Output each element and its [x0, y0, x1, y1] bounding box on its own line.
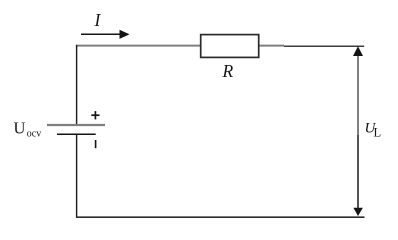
wire left vertical (top corner to battery +)	[76, 45, 78, 125]
wire top horizontal (left of junction)	[77, 45, 284, 47]
svg-text:U: U	[14, 119, 26, 138]
resistor R1 body	[201, 35, 259, 58]
svg-text:ocv: ocv	[27, 128, 41, 139]
battery U_ocv plate + (long top plate)	[47, 124, 105, 126]
voltage arrow U_L (double-headed, right branch)	[353, 46, 363, 216]
label U_L	[365, 120, 382, 139]
wire top horizontal (right segment to node)	[284, 45, 364, 47]
svg-text:L: L	[374, 126, 382, 140]
battery U_ocv plate - (short bottom plate)	[57, 133, 96, 135]
battery polarity plus sign	[91, 111, 99, 119]
wire left vertical (battery - to bottom corner)	[76, 134, 78, 218]
wire bottom horizontal	[76, 216, 365, 218]
svg-text:I: I	[94, 10, 102, 30]
current arrow I	[81, 30, 130, 39]
svg-text:R: R	[222, 61, 234, 81]
label U_ocv	[14, 119, 42, 140]
battery polarity minus tick	[95, 140, 97, 148]
